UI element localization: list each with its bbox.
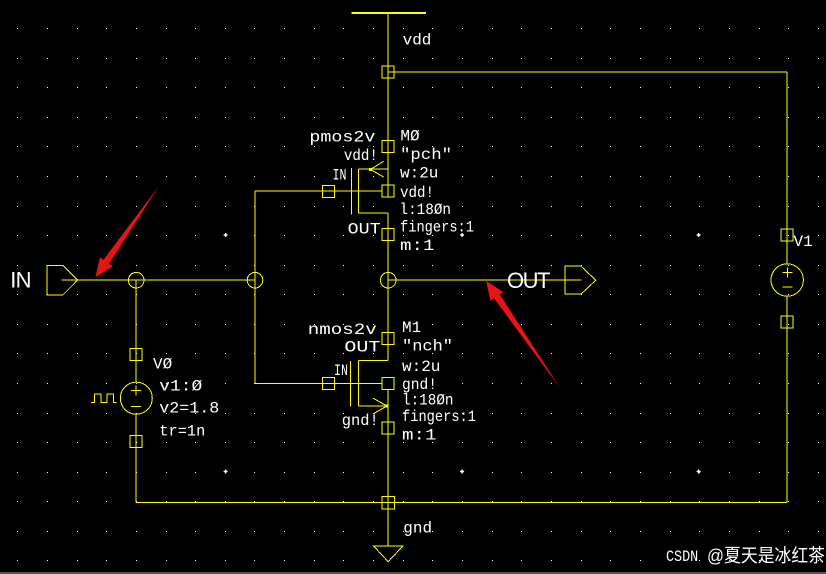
junction square vdd tap	[382, 66, 394, 78]
junction square gnd rail	[382, 496, 395, 509]
svg-text:MØ: MØ	[400, 128, 420, 146]
svg-text:OUT: OUT	[348, 220, 381, 238]
svg-text:vdd!: vdd!	[400, 184, 434, 202]
svg-text:OUT: OUT	[344, 339, 380, 357]
wire: V1 bottom to ground rail	[786, 296, 788, 502]
svg-text:w:2u: w:2u	[400, 165, 438, 183]
wire: nmos bulk lead	[350, 383, 381, 385]
wire: gate riser vertical	[254, 191, 256, 383]
svg-text:vdd!: vdd!	[344, 147, 378, 165]
wire: vdd tap horizontal to V1	[388, 71, 787, 73]
transistor M0 pmos body	[352, 168, 389, 215]
annotation red arrow 1 (points to IN wire)	[95, 186, 158, 277]
wire: IN pin to gate node	[62, 279, 255, 281]
svg-text:@夏天是冰红茶: @夏天是冰红茶	[707, 545, 825, 566]
vdd supply bar	[352, 12, 427, 14]
wire: pmos gate lead horizontal	[255, 190, 352, 192]
bottom gray strip	[0, 572, 826, 574]
wire: OUT net horizontal	[388, 279, 581, 281]
wire: V0 bottom to rail	[135, 414, 137, 502]
svg-text:IN: IN	[333, 167, 347, 185]
ground symbol	[374, 546, 403, 562]
svg-text:pmos2v: pmos2v	[309, 129, 375, 147]
pin IN pentagon	[47, 266, 77, 295]
svg-text:gnd: gnd	[403, 519, 432, 537]
source V0 vpulse	[91, 349, 152, 448]
nmos M1 pin squares	[323, 332, 394, 434]
wire: V1 branch vertical down to source top	[786, 72, 788, 264]
svg-text:fingers:1: fingers:1	[402, 408, 476, 426]
node circle gate	[247, 272, 263, 288]
svg-text:OUT: OUT	[507, 268, 550, 293]
transistor M1 nmos body	[350, 360, 388, 406]
pin OUT pentagon	[565, 266, 596, 294]
wire: pmos drain down to nmos drain	[387, 213, 389, 360]
wire: IN node down to V0	[135, 280, 137, 382]
svg-text:v1:Ø: v1:Ø	[159, 378, 202, 396]
wire: pmos bulk lead	[352, 190, 383, 192]
svg-text:gnd!: gnd!	[342, 412, 379, 430]
svg-text:nmos2v: nmos2v	[308, 321, 377, 339]
svg-text:IN: IN	[10, 268, 30, 293]
nmos M1 bulk arrow	[373, 398, 387, 414]
svg-text:V1: V1	[794, 233, 813, 251]
source V1 vdc	[771, 229, 803, 328]
svg-text:IN: IN	[334, 362, 348, 380]
svg-text:fingers:1: fingers:1	[400, 218, 474, 236]
svg-text:vdd: vdd	[403, 31, 432, 49]
node circle IN/V0	[128, 272, 144, 288]
pmos M0 bulk arrow	[369, 161, 384, 177]
svg-text:v2=1.8: v2=1.8	[159, 400, 219, 418]
svg-text:"nch": "nch"	[402, 338, 453, 356]
wire: bottom ground rail	[136, 501, 787, 503]
svg-text:CSDN: CSDN	[666, 549, 698, 566]
svg-text:m:1: m:1	[402, 427, 437, 445]
wire: nmos bulk to source to rail and gnd stub	[387, 389, 389, 546]
wire: nmos gate lead horizontal	[255, 383, 350, 385]
svg-text:tr=1n: tr=1n	[159, 422, 205, 440]
svg-text:l:18Øn: l:18Øn	[400, 201, 452, 219]
pmos M0 pin squares	[323, 141, 395, 241]
svg-text:"pch": "pch"	[400, 146, 452, 164]
wire: vdd vertical down through junction and pmos top pin to source	[387, 13, 389, 197]
svg-text:m:1: m:1	[400, 237, 435, 255]
svg-text:l:18Øn: l:18Øn	[402, 392, 454, 410]
svg-text:M1: M1	[402, 319, 421, 337]
svg-text:w:2u: w:2u	[402, 358, 440, 376]
node circle OUT	[380, 272, 396, 288]
svg-text:VØ: VØ	[153, 355, 173, 373]
annotation red arrow 2 (points to OUT wire)	[486, 281, 560, 388]
